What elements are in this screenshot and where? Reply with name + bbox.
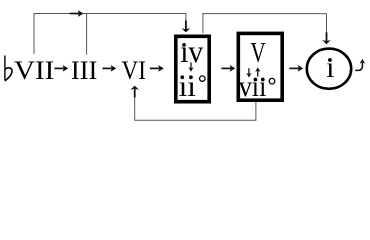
box V/vii (238, 33, 282, 100)
svg-text:V: V (250, 37, 265, 69)
arrow VI to iv box (150, 65, 164, 72)
svg-text:vıı: vıı (239, 70, 267, 103)
wire: bottom rail from V box back to VI (135, 95, 256, 120)
svg-text:ı: ı (326, 51, 334, 84)
diminished circle of vii (269, 78, 275, 84)
svg-text:VII: VII (14, 56, 54, 85)
arrowhead up into VI (130, 86, 139, 98)
repeat arrow right of circle (355, 62, 362, 70)
arrow iv box to V box (221, 65, 235, 72)
arrow V box to tonic circle (289, 65, 303, 72)
small up arrow in V box (255, 67, 260, 76)
tonic circle (307, 49, 351, 89)
wire: right rail from iv box to tonic circle (203, 14, 327, 33)
box iv/ii (176, 36, 209, 101)
arrow VII to III (54, 65, 68, 72)
flat sign of bVII (4, 56, 6, 81)
svg-text:VI: VI (122, 56, 146, 85)
svg-text:ıv: ıv (180, 33, 203, 69)
diminished circle of ii (200, 76, 205, 81)
small down arrow in V box (246, 68, 251, 77)
arrowhead on top rail pointing right (70, 10, 84, 17)
svg-text:ıı: ıı (179, 70, 196, 103)
wire+arrow: drop into iv box (185, 14, 187, 23)
wire: top-left rail VII to III and to iv box (34, 14, 186, 55)
small down arrow iv to ii (188, 62, 193, 71)
svg-text:III: III (71, 56, 98, 85)
wire: vertical drop to III (86, 14, 88, 55)
wire+arrow: drop into circle (326, 14, 328, 34)
arrow III to VI (102, 65, 116, 72)
